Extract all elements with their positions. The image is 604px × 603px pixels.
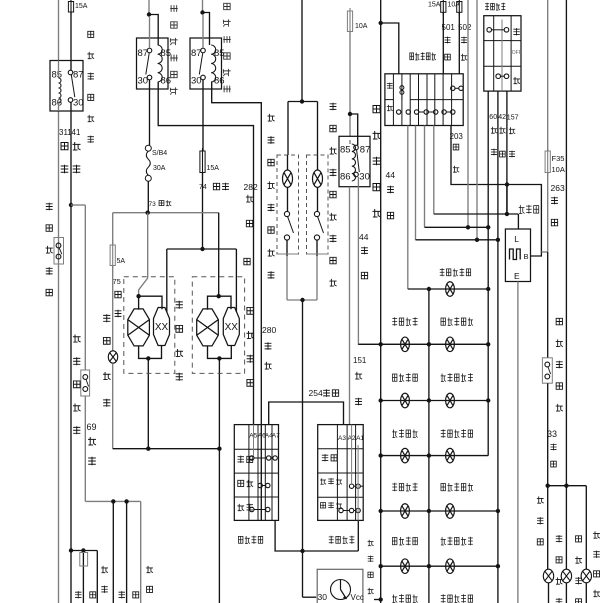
svg-text:F35: F35 <box>552 154 565 163</box>
svg-text:75: 75 <box>113 277 121 286</box>
svg-text:203: 203 <box>450 132 464 141</box>
svg-text:OFF: OFF <box>512 50 522 56</box>
svg-text:XX: XX <box>225 322 239 333</box>
svg-text:86: 86 <box>340 172 351 183</box>
svg-text:10A: 10A <box>552 165 565 174</box>
svg-text:85: 85 <box>340 145 351 156</box>
svg-text:15A: 15A <box>75 3 88 10</box>
svg-text:280: 280 <box>262 325 276 335</box>
svg-text:10A: 10A <box>448 2 461 9</box>
svg-text:87: 87 <box>191 48 202 59</box>
svg-text:30: 30 <box>73 98 84 109</box>
svg-text:15A: 15A <box>207 165 220 172</box>
svg-text:501: 501 <box>442 23 456 32</box>
svg-text:5A: 5A <box>117 258 126 265</box>
svg-text:S/B4: S/B4 <box>152 150 167 157</box>
svg-text:E: E <box>514 271 520 281</box>
svg-text:87: 87 <box>138 48 149 59</box>
svg-text:60: 60 <box>489 114 497 121</box>
svg-text:73: 73 <box>149 201 157 208</box>
svg-text:157: 157 <box>507 115 519 122</box>
svg-text:87: 87 <box>360 145 371 156</box>
svg-text:A1: A1 <box>356 435 364 442</box>
svg-text:41: 41 <box>72 128 81 137</box>
svg-text:10A: 10A <box>355 23 368 30</box>
svg-text:254: 254 <box>309 388 323 398</box>
svg-text:B: B <box>524 252 529 261</box>
svg-text:A3: A3 <box>338 435 346 442</box>
svg-text:311: 311 <box>59 128 72 137</box>
svg-text:30A: 30A <box>153 165 166 172</box>
svg-text:15A: 15A <box>428 2 441 9</box>
svg-text:502: 502 <box>458 23 472 32</box>
svg-text:263: 263 <box>551 183 565 193</box>
svg-text:A7: A7 <box>272 433 280 440</box>
svg-text:30: 30 <box>318 592 328 602</box>
svg-text:44: 44 <box>386 170 396 180</box>
svg-text:L: L <box>514 234 519 244</box>
svg-text:282: 282 <box>244 182 258 192</box>
svg-text:69: 69 <box>87 422 97 432</box>
svg-text:42: 42 <box>498 114 506 121</box>
svg-text:Vcc: Vcc <box>351 593 364 602</box>
svg-text:30: 30 <box>138 76 149 87</box>
svg-text:151: 151 <box>353 356 367 365</box>
svg-text:30: 30 <box>359 172 370 183</box>
svg-text:44: 44 <box>359 232 369 242</box>
svg-text:33: 33 <box>547 429 557 439</box>
svg-text:87: 87 <box>73 70 84 81</box>
svg-text:30: 30 <box>191 76 202 87</box>
svg-text:XX: XX <box>155 322 169 333</box>
